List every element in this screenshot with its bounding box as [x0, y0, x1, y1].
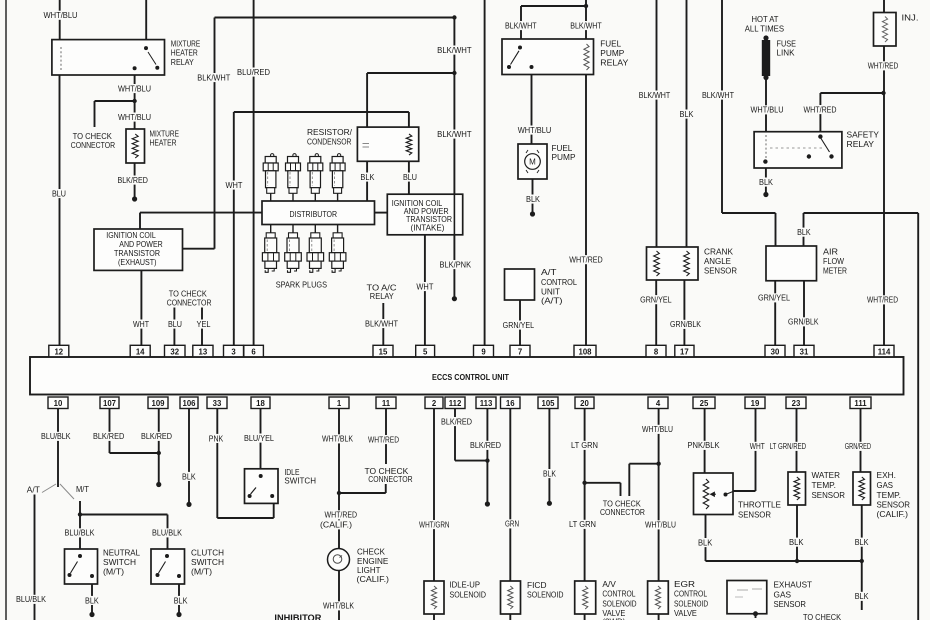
svg-text:TEMP.: TEMP. [877, 490, 902, 500]
svg-text:WHT/BLU: WHT/BLU [645, 520, 676, 530]
svg-text:BLU/YEL: BLU/YEL [244, 433, 274, 443]
svg-text:BLK: BLK [526, 194, 540, 204]
svg-text:112: 112 [449, 399, 462, 408]
svg-text:20: 20 [580, 399, 589, 408]
svg-text:11: 11 [382, 399, 391, 408]
svg-text:WHT/BLK: WHT/BLK [322, 434, 353, 444]
svg-text:108: 108 [578, 347, 592, 356]
svg-text:WHT/BLK: WHT/BLK [323, 601, 354, 611]
svg-text:(INTAKE): (INTAKE) [411, 224, 445, 233]
svg-text:WHT/BLU: WHT/BLU [118, 83, 151, 93]
svg-text:(EXHAUST): (EXHAUST) [118, 258, 157, 267]
svg-text:(M/T): (M/T) [191, 567, 212, 577]
svg-text:4: 4 [656, 399, 661, 408]
svg-text:15: 15 [379, 347, 388, 356]
svg-text:18: 18 [256, 399, 265, 408]
svg-text:AIR: AIR [823, 246, 838, 256]
svg-text:BLK: BLK [789, 537, 804, 547]
svg-text:EXHAUST: EXHAUST [774, 580, 813, 590]
svg-text:6: 6 [251, 347, 256, 356]
svg-text:BLK: BLK [182, 471, 196, 481]
svg-text:WHT/RED: WHT/RED [325, 510, 358, 520]
svg-text:BLK: BLK [85, 595, 99, 605]
svg-text:WHT: WHT [416, 281, 434, 291]
svg-text:17: 17 [680, 347, 689, 356]
svg-text:16: 16 [506, 399, 515, 408]
svg-text:LT GRN: LT GRN [571, 440, 598, 450]
svg-text:SENSOR: SENSOR [812, 490, 846, 500]
svg-text:INHIBITOR: INHIBITOR [274, 613, 322, 620]
svg-text:TEMP.: TEMP. [812, 480, 837, 490]
svg-text:SOLENOID: SOLENOID [527, 589, 564, 599]
svg-text:PNK/BLK: PNK/BLK [688, 440, 720, 450]
svg-text:WHT/BLU: WHT/BLU [518, 125, 552, 135]
svg-text:CLUTCH: CLUTCH [191, 548, 224, 558]
svg-text:BLK: BLK [855, 537, 869, 547]
svg-text:RELAY: RELAY [370, 291, 394, 301]
svg-text:BLU: BLU [403, 172, 417, 182]
svg-text:CRANK: CRANK [704, 246, 733, 256]
svg-text:RELAY: RELAY [171, 57, 194, 67]
svg-text:109: 109 [151, 399, 165, 408]
svg-text:CONNECTOR: CONNECTOR [71, 140, 115, 150]
svg-text:METER: METER [823, 265, 847, 275]
svg-text:3: 3 [231, 347, 236, 356]
svg-text:FUEL: FUEL [600, 39, 621, 49]
svg-text:CONTROL: CONTROL [674, 588, 707, 598]
svg-text:SAFETY: SAFETY [847, 129, 880, 139]
svg-text:ECCS CONTROL UNIT: ECCS CONTROL UNIT [432, 372, 510, 382]
svg-text:BLK/WHT: BLK/WHT [365, 318, 399, 328]
svg-text:1: 1 [337, 399, 342, 408]
svg-text:RELAY: RELAY [600, 58, 628, 68]
svg-text:VALVE: VALVE [674, 608, 697, 618]
svg-text:WHT: WHT [750, 441, 766, 451]
svg-text:LT GRN/RED: LT GRN/RED [770, 441, 806, 451]
svg-text:SWITCH: SWITCH [103, 557, 136, 567]
svg-text:BLU/BLK: BLU/BLK [16, 594, 46, 604]
svg-text:BLK: BLK [680, 109, 694, 119]
svg-text:SENSOR: SENSOR [738, 510, 771, 520]
svg-text:WHT/RED: WHT/RED [368, 434, 399, 444]
svg-text:(2WD): (2WD) [602, 616, 625, 620]
svg-text:GRN/BLK: GRN/BLK [670, 319, 701, 329]
svg-text:AND POWER: AND POWER [119, 240, 163, 249]
svg-text:WHT/RED: WHT/RED [867, 295, 898, 305]
svg-text:113: 113 [480, 399, 493, 408]
svg-text:NEUTRAL: NEUTRAL [103, 548, 140, 558]
svg-text:PNK: PNK [209, 433, 224, 443]
svg-text:GRN/YEL: GRN/YEL [640, 295, 672, 305]
svg-text:BLU: BLU [52, 188, 66, 198]
svg-text:LT GRN: LT GRN [569, 519, 596, 529]
svg-text:WHT/RED: WHT/RED [868, 61, 899, 71]
svg-text:DISTRIBUTOR: DISTRIBUTOR [290, 209, 338, 219]
svg-text:10: 10 [54, 399, 63, 408]
svg-text:SENSOR: SENSOR [877, 500, 911, 510]
svg-text:WHT/BLU: WHT/BLU [44, 10, 78, 20]
svg-text:BLK/RED: BLK/RED [117, 175, 148, 185]
svg-text:32: 32 [170, 347, 179, 356]
svg-text:WHT/BLU: WHT/BLU [642, 424, 673, 434]
svg-text:SWITCH: SWITCH [284, 476, 316, 486]
svg-text:GRN: GRN [505, 519, 519, 529]
svg-text:BLK: BLK [759, 177, 773, 187]
svg-text:114: 114 [878, 347, 891, 356]
svg-text:INJ.: INJ. [902, 12, 919, 22]
svg-text:BLU/BLK: BLU/BLK [41, 431, 71, 441]
svg-text:SENSOR: SENSOR [704, 265, 737, 275]
svg-text:BLK/WHT: BLK/WHT [437, 129, 472, 139]
svg-text:BLK/WHT: BLK/WHT [570, 20, 602, 30]
svg-text:CONNECTOR: CONNECTOR [600, 507, 645, 517]
svg-text:PUMP: PUMP [552, 152, 576, 162]
svg-text:FICD: FICD [527, 580, 547, 590]
svg-text:(A/T): (A/T) [541, 296, 563, 306]
svg-text:WHT/GRN: WHT/GRN [419, 519, 450, 529]
svg-text:BLK: BLK [698, 537, 713, 547]
svg-text:BLK: BLK [543, 468, 556, 478]
svg-text:BLK/WHT: BLK/WHT [505, 20, 537, 30]
svg-text:23: 23 [792, 399, 801, 408]
svg-text:LINK: LINK [777, 47, 795, 57]
svg-text:111: 111 [854, 399, 867, 408]
svg-text:TRANSISTOR: TRANSISTOR [114, 249, 160, 258]
svg-text:CONTROL: CONTROL [602, 588, 635, 598]
svg-text:(M/T): (M/T) [103, 567, 124, 577]
svg-text:(CALIF.): (CALIF.) [877, 509, 909, 519]
svg-text:BLK: BLK [797, 227, 811, 237]
svg-text:THROTTLE: THROTTLE [738, 500, 781, 510]
svg-text:BLU/RED: BLU/RED [237, 67, 270, 77]
svg-text:CONTROL: CONTROL [541, 277, 577, 287]
svg-text:BLK/RED: BLK/RED [93, 431, 124, 441]
svg-text:12: 12 [54, 347, 63, 356]
svg-text:BLK/WHT: BLK/WHT [702, 90, 735, 100]
svg-text:IGNITION COIL: IGNITION COIL [106, 231, 156, 240]
svg-text:BLK/RED: BLK/RED [441, 416, 472, 426]
svg-text:BLK: BLK [174, 595, 188, 605]
svg-text:WHT: WHT [226, 180, 244, 190]
svg-text:WHT/RED: WHT/RED [569, 255, 603, 265]
svg-text:M: M [529, 158, 536, 167]
svg-text:(CALIF.): (CALIF.) [357, 574, 390, 584]
svg-text:25: 25 [700, 399, 709, 408]
svg-text:CONDENSOR: CONDENSOR [307, 137, 352, 147]
svg-text:31: 31 [800, 347, 809, 356]
svg-text:WHT: WHT [133, 319, 150, 329]
svg-text:33: 33 [213, 399, 222, 408]
svg-text:GRN/YEL: GRN/YEL [758, 293, 790, 303]
svg-text:BLU/BLK: BLU/BLK [65, 528, 95, 538]
svg-text:SENSOR: SENSOR [774, 599, 807, 609]
svg-text:14: 14 [136, 347, 145, 356]
svg-text:9: 9 [481, 347, 486, 356]
svg-text:SWITCH: SWITCH [191, 557, 224, 567]
svg-text:2: 2 [432, 399, 437, 408]
svg-text:CONNECTOR: CONNECTOR [167, 297, 212, 307]
svg-text:107: 107 [103, 399, 116, 408]
svg-text:RELAY: RELAY [847, 139, 875, 149]
svg-text:7: 7 [518, 347, 522, 356]
svg-text:SOLENOID: SOLENOID [450, 589, 487, 599]
svg-text:EXH.: EXH. [877, 470, 897, 480]
svg-text:105: 105 [541, 399, 555, 408]
svg-text:8: 8 [654, 347, 659, 356]
svg-text:SPARK PLUGS: SPARK PLUGS [276, 280, 328, 290]
svg-text:BLU: BLU [168, 319, 182, 329]
svg-text:HOT AT: HOT AT [752, 14, 779, 24]
svg-text:(CALIF.): (CALIF.) [320, 520, 352, 530]
svg-text:GAS: GAS [877, 480, 894, 490]
svg-text:BLK/WHT: BLK/WHT [639, 90, 671, 100]
svg-text:TO CHECK: TO CHECK [803, 612, 841, 620]
svg-text:WATER: WATER [812, 470, 841, 480]
svg-text:A/T: A/T [541, 267, 557, 277]
svg-text:A/T: A/T [27, 485, 41, 495]
svg-text:13: 13 [199, 347, 208, 356]
svg-text:GRN/YEL: GRN/YEL [503, 320, 535, 330]
svg-text:ANGLE: ANGLE [704, 256, 731, 266]
svg-text:HEATER: HEATER [150, 138, 177, 148]
svg-text:GRN/BLK: GRN/BLK [788, 317, 819, 327]
svg-text:M/T: M/T [76, 484, 90, 494]
svg-text:ALL TIMES: ALL TIMES [745, 23, 785, 33]
svg-text:BLU/BLK: BLU/BLK [152, 528, 182, 538]
svg-text:WHT/BLU: WHT/BLU [118, 112, 151, 122]
svg-text:30: 30 [771, 347, 780, 356]
svg-text:GAS: GAS [774, 589, 792, 599]
svg-text:BLK: BLK [855, 591, 869, 601]
svg-text:19: 19 [751, 399, 760, 408]
svg-text:5: 5 [423, 347, 428, 356]
svg-text:BLK: BLK [360, 172, 374, 182]
svg-text:BLK/PNK: BLK/PNK [440, 259, 472, 269]
svg-text:CONNECTOR: CONNECTOR [368, 474, 412, 484]
svg-text:BLK/WHT: BLK/WHT [197, 72, 231, 82]
svg-text:FLOW: FLOW [823, 256, 844, 266]
svg-text:WHT/RED: WHT/RED [804, 104, 837, 114]
svg-text:WHT/BLU: WHT/BLU [751, 105, 784, 115]
svg-text:PUMP: PUMP [600, 48, 624, 58]
svg-text:IDLE-UP: IDLE-UP [450, 580, 481, 590]
svg-text:BLK/RED: BLK/RED [141, 431, 172, 441]
svg-text:GRN/RED: GRN/RED [845, 441, 871, 451]
svg-text:BLK/RED: BLK/RED [470, 440, 501, 450]
svg-text:BLK/WHT: BLK/WHT [437, 45, 472, 55]
svg-text:YEL: YEL [197, 319, 211, 329]
svg-text:106: 106 [182, 399, 196, 408]
